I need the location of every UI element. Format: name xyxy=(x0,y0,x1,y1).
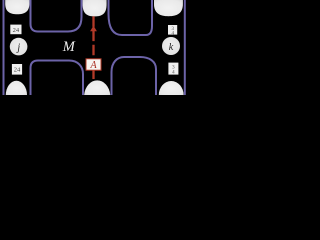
node k circle xyxy=(162,37,180,55)
coupon box A xyxy=(86,59,101,70)
wire lower-right tube boundary xyxy=(112,57,157,95)
node hole top-right xyxy=(154,0,183,16)
svg-text:24: 24 xyxy=(13,27,20,34)
node hole bottom-middle xyxy=(84,80,110,95)
node hole bottom-left xyxy=(6,81,27,95)
wire right edge strand xyxy=(184,0,186,95)
svg-text:24: 24 xyxy=(14,66,21,73)
node hole top-middle xyxy=(83,0,107,16)
node j circle xyxy=(10,38,28,56)
coupon lower-left xyxy=(12,64,22,75)
wire upper-left tube boundary xyxy=(31,0,82,32)
wire left edge strand xyxy=(3,0,5,95)
node hole bottom-right xyxy=(159,81,184,95)
coupon lower-right xyxy=(168,63,178,76)
coupon upper-left xyxy=(10,25,21,35)
svg-text:M: M xyxy=(62,39,76,55)
curve A red dashed arc xyxy=(90,16,97,79)
svg-text:k: k xyxy=(169,42,174,53)
wire upper-right tube boundary xyxy=(109,0,153,35)
wire lower-left tube boundary xyxy=(31,61,84,96)
coupon upper-right xyxy=(168,25,177,37)
svg-text:A: A xyxy=(90,60,98,71)
node hole top-left xyxy=(5,0,29,14)
